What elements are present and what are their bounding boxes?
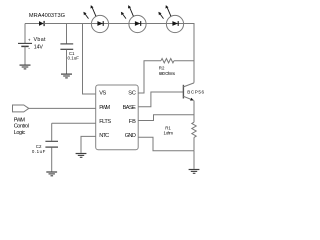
capacitor C2 0.1uF: [45, 123, 58, 171]
wire LED1-LED2: [109, 23, 129, 25]
wire VS riser: [83, 24, 96, 95]
PWM input tag: [13, 105, 29, 112]
wire NTC to ground: [81, 136, 96, 153]
ground (C1): [61, 74, 72, 78]
wire GND pin to ground rail: [138, 137, 194, 150]
battery V1 Vbat: [18, 24, 32, 65]
ground (NTC): [76, 154, 87, 158]
svg-text:R2: R2: [159, 65, 165, 70]
ground (main): [189, 170, 200, 174]
wire FB to emitter node: [138, 115, 194, 121]
wire PWM input to PWM pin: [29, 107, 96, 109]
svg-text:PWM: PWM: [99, 105, 110, 111]
wire emitter down: [193, 101, 195, 123]
ground (battery): [20, 65, 31, 69]
svg-text:-: -: [28, 45, 30, 51]
svg-text:0.1uF: 0.1uF: [32, 149, 46, 154]
svg-text:NTC: NTC: [99, 133, 109, 139]
resistor R1 1 ohm: [192, 122, 196, 137]
svg-text:+: +: [28, 38, 31, 43]
svg-text:Logic: Logic: [14, 130, 26, 136]
svg-text:SC: SC: [128, 91, 136, 97]
capacitor C1 0.1uF: [60, 24, 73, 74]
svg-text:FLTS: FLTS: [99, 119, 111, 125]
wire FLTS to C2: [52, 122, 96, 124]
wire R1 to ground rail: [193, 137, 195, 150]
svg-text:VS: VS: [99, 91, 106, 97]
diode D1 MRA4003T3G: [39, 21, 44, 26]
svg-text:0.1uF: 0.1uF: [68, 56, 80, 61]
ground (C2): [46, 172, 57, 176]
wire BASE to transistor: [138, 92, 183, 107]
svg-text:BCP56: BCP56: [187, 89, 204, 94]
resistor R2 680 Ohms: [161, 59, 174, 63]
svg-text:BASE: BASE: [123, 105, 137, 111]
op-amp U1 controller box: [96, 85, 139, 150]
svg-text:GND: GND: [125, 133, 136, 139]
wire LED2-LED3: [146, 23, 166, 25]
wire R2 to collector column: [174, 60, 194, 62]
svg-text:1 ohm: 1 ohm: [164, 131, 174, 136]
LED D2: [83, 5, 108, 32]
svg-text:Control: Control: [14, 124, 29, 130]
svg-text:14V: 14V: [34, 44, 44, 50]
LED D4: [158, 5, 183, 32]
wire rail diode to LED1: [44, 23, 91, 25]
svg-text:Vbat: Vbat: [34, 37, 47, 43]
svg-text:PWM: PWM: [14, 117, 26, 123]
transistor Q1 BCP56: [183, 83, 194, 101]
wire top rail from battery to diode: [25, 23, 39, 25]
wire LED3 to collector column: [184, 24, 194, 83]
svg-text:680 Ohms: 680 Ohms: [159, 71, 176, 76]
LED D3: [121, 5, 146, 32]
wire ground drop: [193, 151, 195, 169]
label PWM Control Logic: [14, 117, 29, 136]
svg-text:MRA4003T3G: MRA4003T3G: [29, 13, 65, 19]
wire SC to R2: [138, 61, 161, 93]
svg-text:FB: FB: [129, 119, 136, 125]
